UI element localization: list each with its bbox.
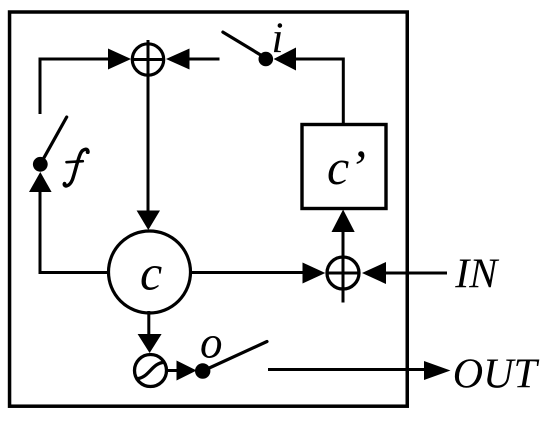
wire sigmoid to switch o	[167, 369, 179, 372]
wire vertical from A1 down to circle c	[147, 40, 150, 212]
wire circle c bottom down to sigmoid	[147, 311, 150, 334]
arrowhead into switch o dot	[177, 361, 197, 381]
wire A1 right to switch i	[188, 58, 220, 61]
sigmoid unit circle	[135, 355, 167, 387]
arrowhead into adder A2 left	[303, 263, 326, 284]
svg-text:o: o	[200, 318, 223, 368]
arrowhead OUT	[424, 361, 451, 380]
arrowhead into switch i dot	[274, 48, 296, 71]
svg-text:IN: IN	[454, 252, 499, 298]
arrowhead up into switch f dot	[29, 172, 52, 192]
switch i lever	[223, 32, 266, 58]
arrowhead into adder A2 right (from IN)	[362, 262, 386, 284]
adder A2 circle-plus	[327, 257, 359, 289]
wire left from f switch down and right into circle c	[40, 191, 109, 273]
switch f lever	[40, 117, 66, 164]
arrowhead down into circle c top	[137, 211, 160, 231]
switch f contact dot	[33, 157, 48, 172]
label f	[63, 149, 90, 186]
adder A1 circle-plus	[132, 44, 163, 75]
border frame of cell	[10, 12, 408, 406]
switch i contact dot	[259, 52, 274, 67]
wire circle c right to adder A2	[192, 271, 305, 274]
svg-text:c’: c’	[327, 139, 366, 195]
arrowhead up into box c' bottom	[332, 210, 355, 233]
svg-text:c: c	[140, 245, 162, 301]
switch o lever	[203, 342, 267, 372]
wire IN	[384, 272, 447, 275]
switch o contact dot	[195, 363, 210, 378]
wire OUT	[268, 368, 425, 371]
arrowhead down into sigmoid	[138, 334, 162, 353]
svg-text:OUT: OUT	[453, 352, 540, 398]
wire vertical through adder A2	[342, 231, 345, 303]
arrowhead into adder A1 left	[108, 49, 131, 70]
wire left-top L (down to f switch, right to adder A1)	[40, 59, 112, 114]
box c'	[302, 125, 386, 209]
circle c	[109, 231, 191, 313]
arrowhead into adder A1 right	[166, 49, 190, 70]
wire from c' box top up and left to switch i	[295, 59, 343, 126]
